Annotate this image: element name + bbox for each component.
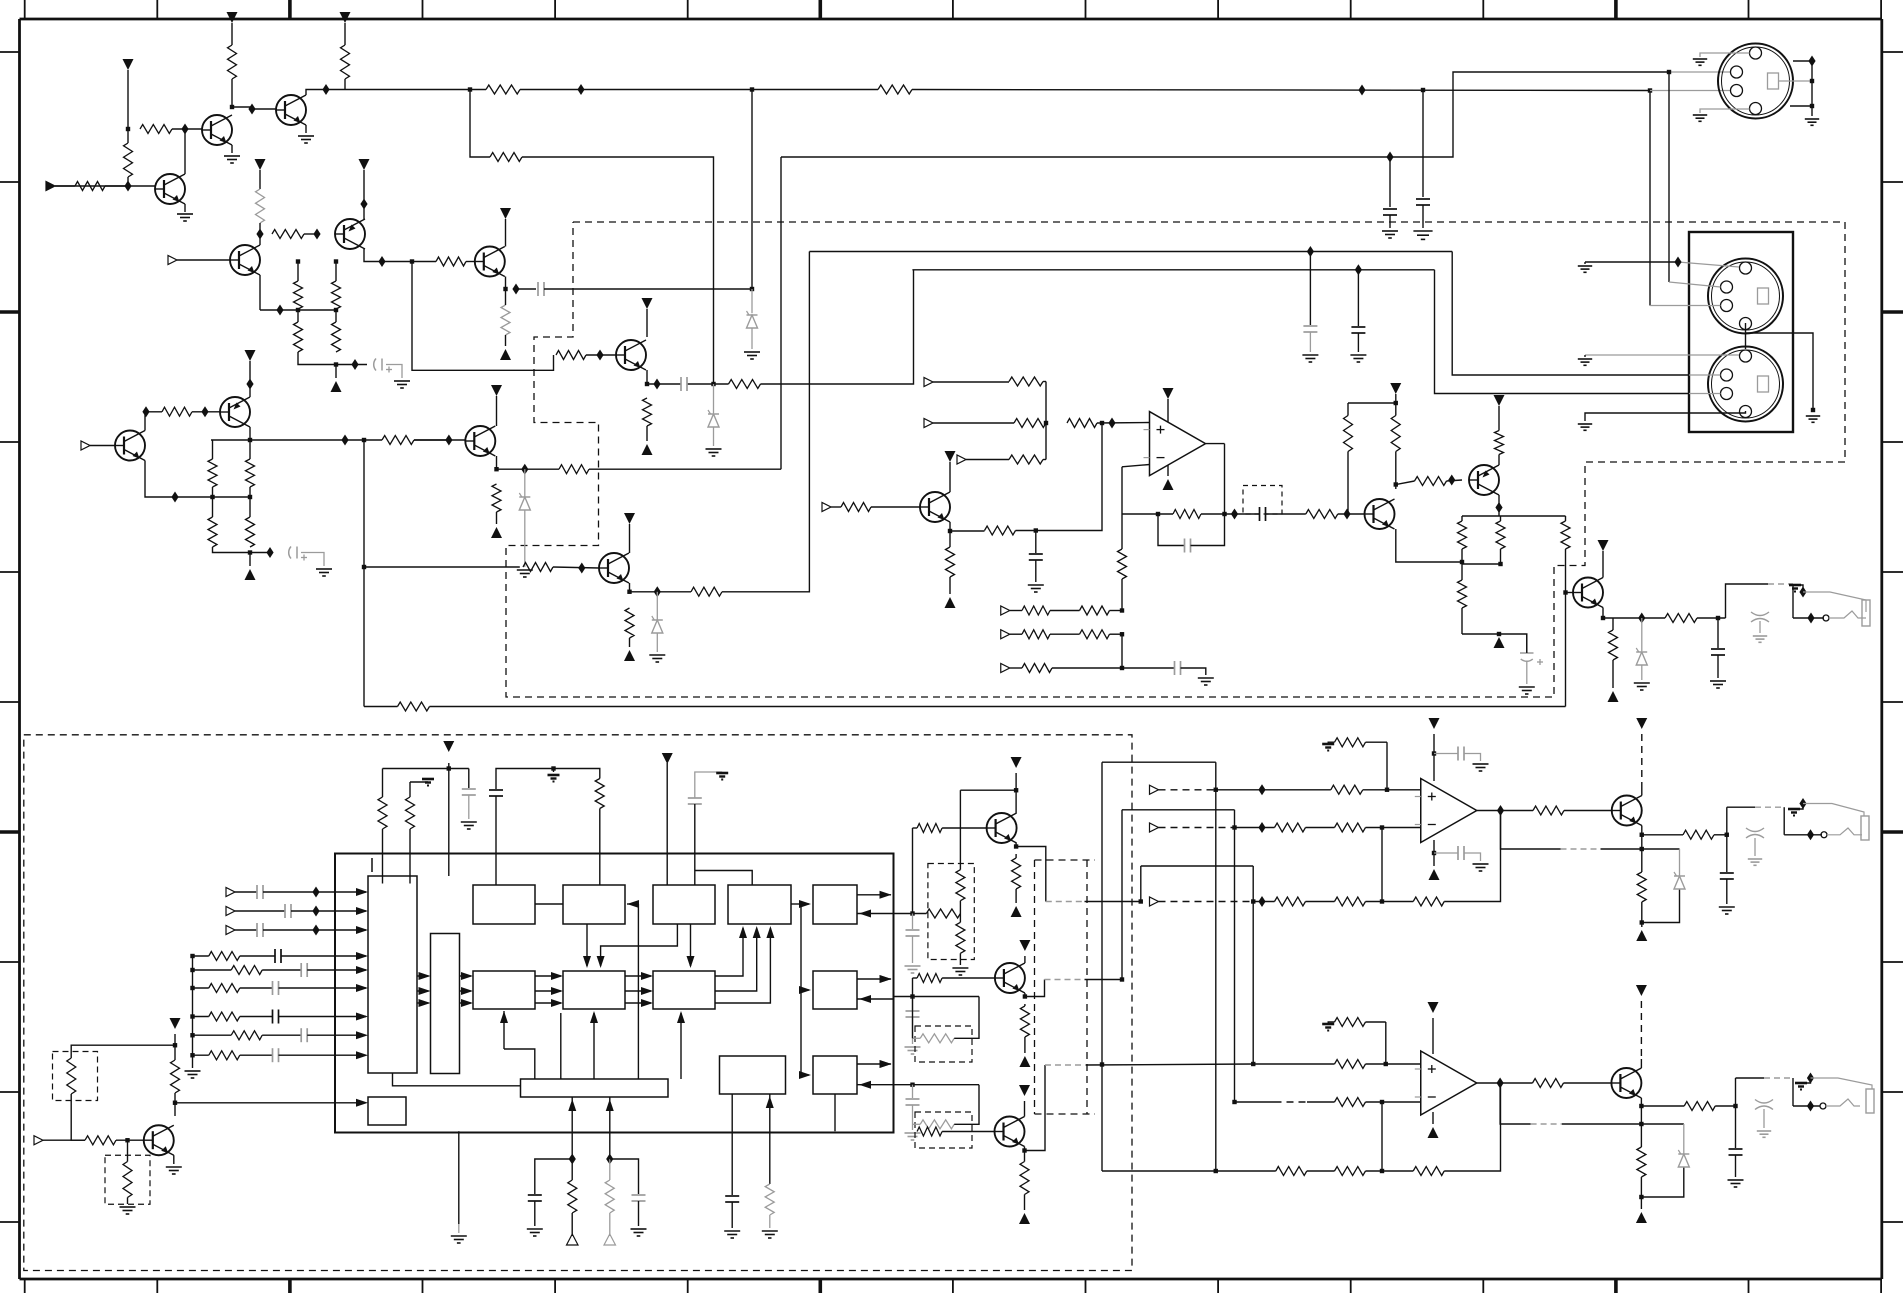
arrow rrow6 (356, 1051, 368, 1059)
wire R62 to V+ rail (959, 790, 961, 870)
wire R93 to U4 (1366, 1101, 1421, 1103)
wire bus P2 top (1122, 809, 1235, 811)
wire capA gnd lead (912, 936, 914, 963)
wire bus P1L (1101, 762, 1103, 1171)
node box ground (1811, 408, 1815, 412)
wire C23 gnd lead (1181, 668, 1206, 675)
node y634 (1497, 632, 1501, 636)
wire R18 bot (212, 487, 214, 497)
border tick left (0, 1221, 20, 1223)
op-amp U1 (1144, 412, 1206, 476)
wire R5 to Q2 base (172, 128, 202, 130)
wire N-MB1 (460, 975, 472, 977)
input arrow row3 (226, 926, 235, 935)
border tick top (1880, 0, 1882, 19)
junction diamond row3 (312, 925, 319, 936)
resistor R23 (559, 465, 589, 474)
wire R40 to Q11 base (1338, 513, 1365, 515)
border tick bottom (288, 1279, 292, 1293)
transistor Q7b (599, 553, 629, 583)
node U4 fb join (1380, 1100, 1384, 1104)
node P1R end (1214, 1169, 1218, 1173)
node rrow5 (190, 1033, 194, 1037)
wire C17 gnd lead (534, 1201, 536, 1226)
wire Q16 collector (1024, 962, 1026, 964)
junction diamond J6 sleeve (1807, 1073, 1814, 1084)
resistor R63 (926, 909, 960, 918)
wire row1 a (235, 891, 257, 893)
chassis ground J5 (1788, 809, 1800, 816)
wire rrow3 c (279, 987, 367, 989)
resistor R66 (1012, 858, 1021, 889)
wire R62-R63 (959, 901, 961, 914)
border tick top (1217, 0, 1219, 19)
wire R50 bottom (1612, 660, 1614, 688)
arrow into MB4 (799, 986, 811, 994)
arrow rrow5 (356, 1031, 368, 1039)
junction diamond Q5 emitter (360, 199, 367, 210)
wire R41 to base (1347, 452, 1349, 515)
wire V+ to R44 (1498, 406, 1500, 431)
junction diamond U2p (1258, 784, 1265, 795)
arrow into B6 (356, 1099, 368, 1107)
border tick bottom (1350, 1279, 1352, 1293)
wire C2 to ground (1389, 215, 1391, 228)
border tick bottom (1614, 1279, 1618, 1293)
node U2 link (1640, 847, 1644, 851)
dashed wire Q19 collector (1640, 1001, 1642, 1059)
wire Q2 collector to Q3 base (232, 107, 276, 109)
border tick top (1085, 0, 1087, 19)
arrow out pinA (880, 891, 892, 899)
wire IN3 to Q8 base (90, 445, 115, 447)
border tick bottom (1880, 1279, 1882, 1293)
wire rrow3 a (193, 987, 209, 989)
resistor R65 (917, 824, 942, 833)
wire fb cap branch (1158, 514, 1185, 546)
wire J5 tip to plug (1827, 828, 1862, 835)
capacitor C25 (1458, 846, 1464, 860)
wire R1 node to R3 (127, 129, 129, 143)
wire V+ to R2 (231, 23, 233, 45)
wire R72 lead (1024, 1151, 1026, 1162)
resistor R27 (729, 380, 761, 389)
wire row3 a (235, 929, 257, 931)
wire Q6 em to R25 (505, 289, 507, 305)
sheet top border (20, 18, 1882, 21)
wire C12 top lead (1526, 634, 1528, 653)
wire U2m mid (1306, 827, 1335, 829)
wire D4 gnd (656, 633, 658, 652)
node div2 bot (248, 550, 252, 554)
wire Q17 emitter link (1025, 1065, 1046, 1151)
resistor R11 (272, 230, 304, 239)
IC block bar (521, 1079, 669, 1097)
power arrow V+ Q12 (1494, 395, 1505, 406)
connector J3 DIN (1708, 347, 1783, 422)
power arrow V- QA (491, 527, 502, 538)
wire R31 to V- (629, 638, 631, 647)
wire pin gnd lead (458, 1224, 460, 1233)
wire J4 sleeve gnd (1795, 585, 1803, 592)
node Q7b emitter (627, 590, 631, 594)
wire V- lead (1641, 923, 1643, 928)
wire y564 link (1462, 563, 1501, 565)
IC block MB5 (813, 1056, 857, 1094)
power arrow V+ Q5 (359, 159, 370, 170)
resistor R29 (523, 563, 553, 572)
wire U4 bias corner (1385, 1022, 1387, 1064)
border tick top (1482, 0, 1484, 19)
wire U4 fb mid (1307, 1170, 1335, 1172)
junction diamond Q12 base (1448, 475, 1455, 486)
node DIN1 pin2 junction (1667, 70, 1671, 74)
wire C4 ground lead (301, 553, 324, 567)
wire to Q13 (1566, 592, 1574, 594)
IC block N (431, 934, 460, 1074)
wire D6 lead (1679, 849, 1681, 876)
wire V+ Q10 (949, 462, 951, 492)
wire R48 lead (1565, 516, 1567, 521)
wire C26 gnd lead (1726, 879, 1728, 904)
resistor R68 (917, 974, 942, 983)
ground D1 (517, 570, 533, 577)
resistor R26 (556, 351, 586, 360)
resistor R4 (75, 182, 105, 191)
resistor R60 (85, 1136, 116, 1145)
transistor Q3 (276, 95, 306, 125)
junction diamond rail (577, 84, 584, 95)
resistor R35 (1014, 419, 1046, 428)
arrow TB4 c (766, 926, 774, 938)
op-amp U4 (1415, 1051, 1477, 1115)
wire V+ Q7 (646, 309, 648, 337)
arrow row3 (356, 926, 368, 934)
wire pinB lead (894, 996, 980, 998)
capacitor C2 (1383, 209, 1397, 215)
wire R14 top (297, 310, 299, 322)
node U2 fb (1380, 825, 1384, 829)
wire R50 top (1612, 618, 1614, 630)
node C27 (1733, 1104, 1737, 1108)
node Q14 vplus (173, 1043, 177, 1047)
border tick bottom (1748, 1279, 1750, 1293)
resistor R73 (1022, 664, 1052, 673)
wire link Q16 solid (1085, 979, 1123, 981)
wire Q18 emitter (1641, 826, 1643, 835)
resistor R72 (1020, 1162, 1029, 1195)
wire R42 top lead (1395, 403, 1397, 416)
node C26 (1725, 833, 1729, 837)
wire J5 sleeve gnd stub (1794, 804, 1803, 810)
resistor R75 (1080, 606, 1110, 615)
dashed resistor box 4 (915, 1026, 972, 1062)
dashed resistor box 3 (928, 864, 974, 960)
resistor R13 (332, 281, 341, 309)
arrow TB3 to MB3 (687, 956, 695, 968)
wire bus P2R (1234, 810, 1236, 1102)
wire inverting bus 2 (1121, 634, 1123, 668)
capacitor C8 (1303, 326, 1317, 332)
node J1 key (1810, 79, 1814, 83)
wire bus drop to Q7 base line (412, 262, 554, 371)
resistor Rrow6 (209, 1051, 240, 1060)
wire R57 gnd lead (769, 1215, 771, 1228)
arrow row2 (356, 907, 368, 915)
node bias top (1394, 401, 1398, 405)
input arrow U2m (1150, 823, 1159, 832)
wire C27 gnd lead (1735, 1155, 1737, 1177)
wire C25 gnd lead (1464, 853, 1481, 861)
junction diamond Q3 base (248, 104, 255, 115)
wire D2 ground lead (751, 328, 753, 349)
border tick top (952, 0, 954, 19)
node pinA (910, 911, 914, 915)
power arrow V+ TB3 (662, 753, 673, 764)
dashed wire U4 minus row (1275, 1101, 1308, 1103)
jack tip circle J4 (1823, 615, 1829, 621)
wire S6 row (1010, 633, 1022, 635)
capacitor C14 (462, 789, 476, 795)
border tick left (0, 571, 20, 573)
wire Q5 collector to bus (364, 249, 436, 262)
capacitor C19 (725, 1196, 739, 1202)
wire R48 to Q13 base (1565, 549, 1567, 593)
wire J2 to J3 link (1745, 323, 1747, 349)
ground J1 pin4 (1693, 115, 1707, 121)
wire out2 neg link (1642, 889, 1680, 923)
resistor R93 (1335, 1098, 1366, 1107)
wire R18 top (212, 440, 214, 459)
wire R25 to V- (505, 335, 507, 346)
node x364 y440 (362, 438, 366, 442)
small ground U4 bias (1322, 1024, 1334, 1031)
wire rrow1 b (240, 955, 275, 957)
wire U4 fb row a (1102, 1170, 1216, 1172)
wire line B (912, 269, 1434, 271)
wire rail branch to DIN2 pin3 (1649, 91, 1651, 306)
node Q6 emitter (503, 287, 507, 291)
resistor R18 (208, 459, 217, 487)
wire C16 top loop (695, 772, 722, 798)
capacitor C15 (489, 790, 503, 796)
border tick bottom (422, 1279, 424, 1293)
wire V+ QA (496, 396, 498, 426)
border tick top (818, 0, 822, 19)
resistor R78 (1331, 785, 1363, 794)
wire pin2 cap branch (610, 1159, 639, 1194)
wire J1 lower lead (1790, 105, 1812, 107)
border tick bottom (1217, 1279, 1219, 1293)
transistor Q19 (1611, 1068, 1641, 1098)
wire vertical TB2 feedback (637, 904, 639, 1079)
junction diamond out1 (1638, 613, 1645, 624)
node U4 fb (1380, 1169, 1384, 1173)
node rrow4 (190, 1014, 194, 1018)
wire U4 fb to R90 (1366, 1170, 1414, 1172)
wire R56 bottom (609, 1213, 611, 1236)
wire V+ to TB3 (666, 763, 668, 885)
wire B10 pin1 (731, 1094, 733, 1195)
wire bar-MB1 L (504, 1049, 535, 1079)
capacitor C26 (1720, 873, 1734, 879)
node S4 (1120, 666, 1124, 670)
capacitor C21 (906, 1011, 920, 1017)
junction diamond bus (378, 256, 385, 267)
ground C1 (1413, 231, 1432, 239)
wire output line 1b (1697, 617, 1726, 619)
wire IN2 to Q4 base (177, 259, 230, 261)
wire Q7 emitter down (646, 370, 648, 384)
wire R44 to Q12 emitter (1498, 455, 1500, 466)
wire rrow6 c (279, 1054, 367, 1056)
wire pin1 cap branch (535, 1159, 572, 1194)
wire J4 sleeve to plug (1803, 592, 1866, 612)
resistor R84 (1413, 897, 1444, 906)
wire R13 top (335, 262, 337, 282)
jack box J6 top a (1736, 1077, 1765, 1079)
jack box J5 left (1726, 807, 1728, 835)
wire D5 gnd lead (1641, 665, 1643, 680)
zener diode D5 (1636, 648, 1647, 665)
wire to Q9 emitter (249, 384, 251, 397)
wire zener to ground (524, 510, 526, 567)
dashed resistor box 1 (53, 1052, 98, 1101)
wire rrow4 c (279, 1016, 367, 1018)
wire Q8 collector up (145, 412, 162, 431)
node Q9 collector (248, 438, 252, 442)
jack tip circle J6 (1820, 1103, 1826, 1109)
power arrow V+ Q3 (340, 12, 351, 23)
node rrow2 (190, 968, 194, 972)
wire Q15 emitter (1015, 843, 1017, 847)
wire C3 to ground (386, 365, 402, 379)
power arrow V- Q17 (1019, 1213, 1030, 1224)
wire U2 plus row (1216, 789, 1331, 791)
border tick right (1882, 830, 1903, 834)
dashed box link bottom (1035, 1113, 1096, 1115)
resistor R20 (208, 517, 217, 547)
wire D5 lead (1641, 618, 1643, 651)
junction diamond Q7b base (578, 563, 585, 574)
power arrow V- Q7b (624, 650, 635, 661)
resistor R33 (946, 547, 955, 577)
junction diamond Q1 collector (181, 124, 188, 135)
border tick bottom (1085, 1279, 1087, 1293)
electrolytic capacitor C4 (289, 547, 307, 561)
wire R59 bottom (174, 1093, 176, 1103)
wire bar-MB1 (560, 1013, 562, 1079)
power arrow V- out2 (1636, 930, 1647, 941)
wire divider mid (260, 309, 336, 311)
resistor R44 (1495, 431, 1504, 455)
IC block TB5 (813, 885, 857, 924)
wire gray J3 pin2 (1689, 374, 1721, 376)
wire MB5 in (857, 1084, 894, 1086)
border tick right (1882, 571, 1903, 573)
node Q10 emitter (948, 529, 952, 533)
wire R65 to Q15 base (942, 827, 987, 829)
ground C14 (461, 822, 477, 829)
wire R78 to U2 (1363, 789, 1421, 791)
wire rail3 stub (364, 706, 398, 708)
wire C11 to R40 (1266, 513, 1306, 515)
arrow MB1-MB2 (551, 999, 563, 1007)
wire bias top (1348, 402, 1396, 404)
wire J3 pin1 lead (1585, 354, 1739, 356)
wire R24 bottom (496, 512, 498, 524)
wire V+ Q9b (249, 361, 251, 384)
wire TB2-MB2 (586, 924, 588, 966)
wire V+ Q11 stem (1395, 394, 1397, 403)
junction diamond Q11 base (1343, 509, 1350, 520)
node rail cap (1421, 88, 1425, 92)
ground C24 (1473, 764, 1489, 771)
junction diamond divider mid (276, 305, 283, 316)
wire C18 gnd lead (638, 1201, 640, 1226)
ground C17 (527, 1229, 543, 1236)
wire R29 to Q7b base (553, 567, 599, 568)
node P1R row1 (1214, 788, 1218, 792)
wire J2 pin1 ground lead (1585, 261, 1678, 263)
wire div2 to V- (249, 553, 251, 567)
wire V+ to Q5 emitter (363, 170, 365, 219)
wire U2 fb row a (1253, 901, 1274, 903)
wire link Q17 solid (1086, 1064, 1253, 1065)
junction diamond U2m (1258, 822, 1265, 833)
jack box J5 right (1783, 807, 1785, 835)
wire R52 into IC (382, 829, 384, 884)
power arrow V- y634 (1494, 637, 1505, 648)
wire R43 to Q12 base (1447, 480, 1463, 481)
wire C27 lead (1735, 1106, 1737, 1148)
ground R57 (762, 1231, 778, 1238)
arrow N-MB1 (461, 987, 473, 995)
wire R33 top (949, 531, 951, 547)
resistor R88 (1276, 1167, 1307, 1176)
jack plug J5 (1861, 816, 1869, 840)
wire V+ into IC (448, 763, 450, 876)
jack box J4 left-top (1726, 584, 1769, 618)
wire R92 gnd lead (1328, 1022, 1334, 1023)
capacitor C1 (1416, 199, 1430, 205)
wire R19 top (249, 440, 251, 459)
wire osc loop (496, 769, 600, 790)
wire R67 left lead (913, 1037, 921, 1039)
zener diode D4 (652, 616, 663, 633)
arrow Tin-N (419, 999, 431, 1007)
zener diode D1 (519, 493, 530, 510)
ground C3 (394, 381, 410, 388)
ground C21 (905, 1047, 921, 1054)
wire to J5 tip (1784, 834, 1822, 836)
power arrow V+ Q7 (642, 298, 653, 309)
input arrow row2 (226, 907, 235, 916)
dashed box link top (1035, 859, 1096, 861)
wire out3 neg link (1641, 1167, 1683, 1197)
resistor R67 (920, 1034, 954, 1043)
resistor R49 (1665, 614, 1697, 623)
ground J5 (1748, 859, 1762, 865)
wire gray J2 pin2 (1669, 282, 1721, 287)
arrow MB1-MB2 (551, 972, 563, 980)
power arrow V+ Q6 (500, 208, 511, 219)
wire R54 into IC (599, 809, 601, 886)
wire U2f mid (1306, 901, 1335, 903)
wire MB1-MB2 (535, 975, 561, 977)
jack box J4 right (1792, 584, 1794, 618)
arrow into TB5 (799, 900, 811, 908)
